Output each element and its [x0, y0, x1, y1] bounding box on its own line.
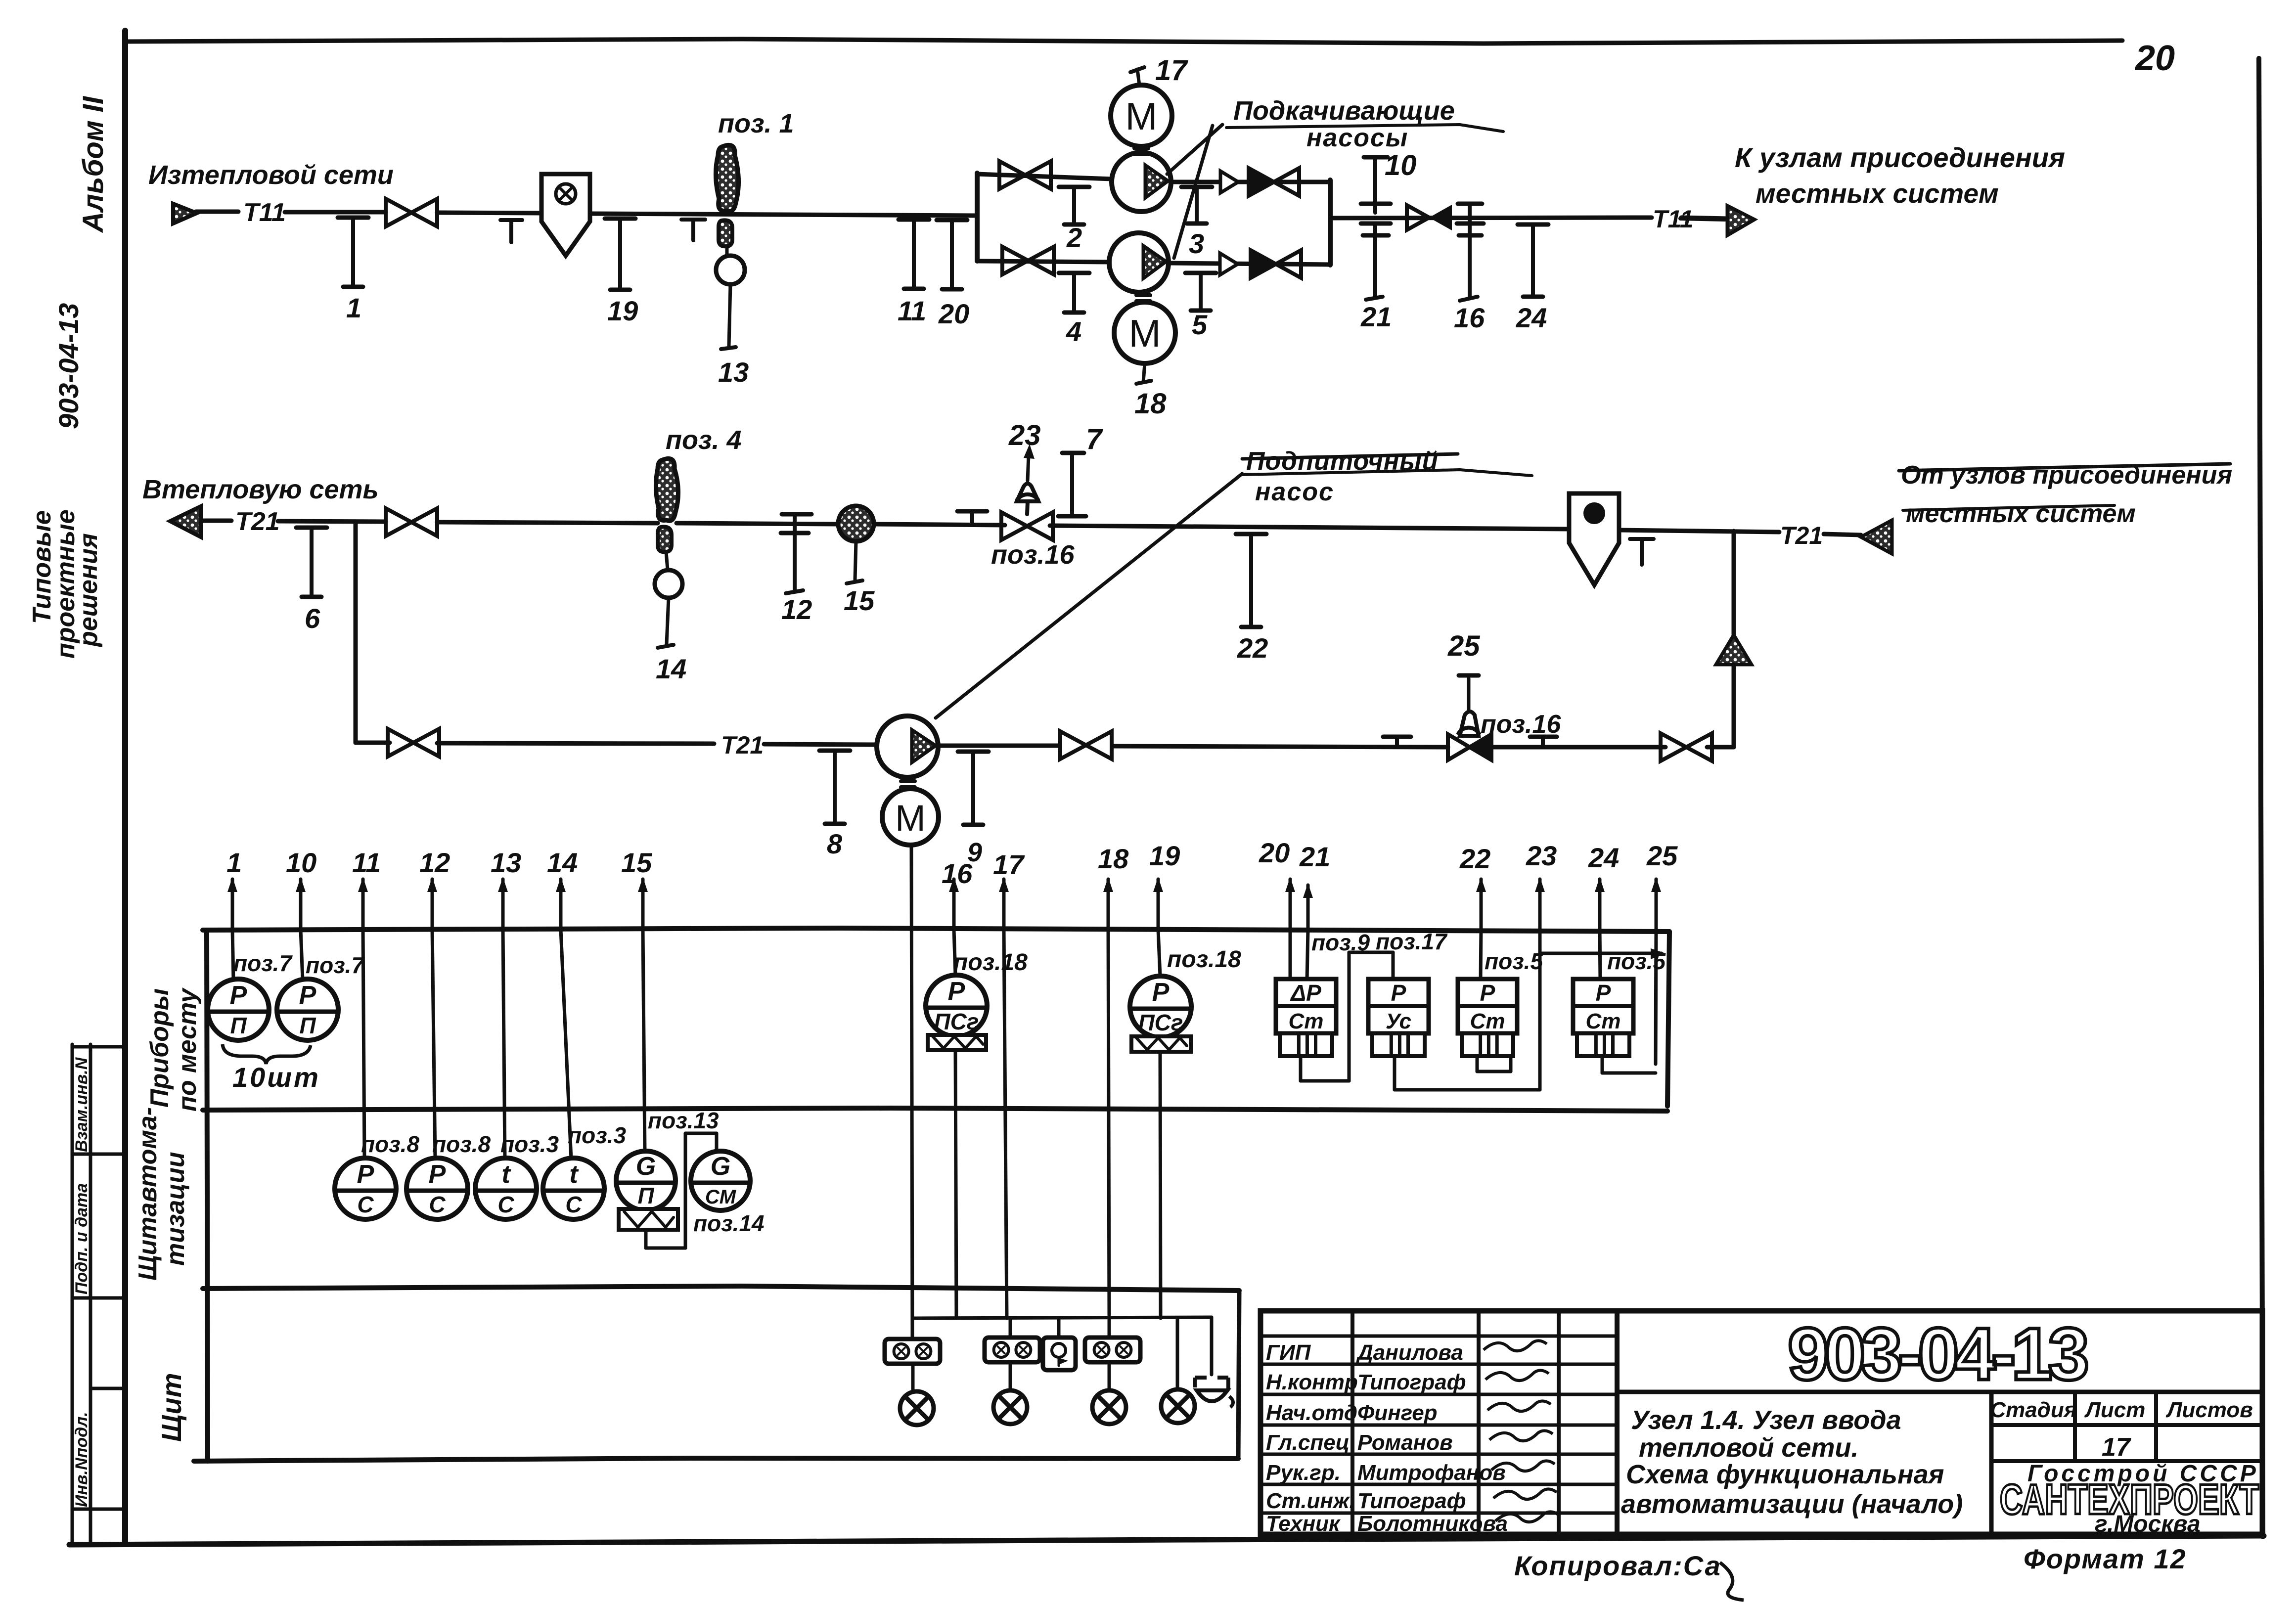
thermometer pos.4 on T21 [656, 458, 678, 521]
svg-text:Р: Р [1152, 978, 1170, 1007]
signal line 22 into P/St no.1 [1481, 930, 1481, 980]
pipe T11 to local systems [1330, 218, 1652, 218]
svg-text:10: 10 [286, 847, 316, 878]
tap 21 below line [1361, 222, 1391, 226]
signal lamp A [900, 1391, 934, 1425]
booster pump 2 [1109, 233, 1169, 292]
U-loop under P/St no.1 [1476, 1056, 1479, 1071]
drop to lamp box B [1009, 1318, 1012, 1338]
svg-text:М: М [1125, 94, 1158, 138]
tap 19 [605, 219, 638, 326]
signal line 15 down to G/P [643, 930, 645, 1152]
svg-text:ПСг: ПСг [934, 1009, 979, 1034]
lower branch pipe to pump 2 [977, 261, 1108, 262]
wire from P/PSg no.2 down to bus [1160, 1052, 1161, 1318]
margin stamp separator 3 [72, 1296, 125, 1300]
wire from P/PSg no.1 down to bus [955, 1050, 956, 1318]
svg-text:24: 24 [1516, 302, 1547, 333]
svg-text:Р: Р [1391, 980, 1406, 1006]
temperature recorder t/S pos.3 no.2 [543, 1158, 604, 1219]
title block outer box [1261, 1311, 2262, 1534]
row boundary line 2 (bottom of local instruments band) [203, 1108, 1667, 1111]
svg-text:ПСг: ПСг [1138, 1010, 1183, 1035]
svg-text:Взам.инв.N: Взам.инв.N [72, 1057, 91, 1152]
signal lamp D [1161, 1389, 1195, 1423]
junction vertical down to make-up line [1732, 531, 1736, 747]
svg-text:Инв.Nподл.: Инв.Nподл. [72, 1412, 91, 1507]
margin stamp separator 2 [72, 1153, 125, 1156]
make-up pipe T21 lower [356, 741, 390, 745]
signal line 24 [1588, 842, 1619, 930]
wire P/Us output down and right [1393, 1056, 1396, 1090]
svg-text:поз.18: поз.18 [1167, 946, 1241, 973]
electric motor M make-up [882, 789, 939, 845]
svg-text:Схема функциональная: Схема функциональная [1626, 1460, 1944, 1489]
title block signature row lines [1261, 1335, 1617, 1338]
svg-text:25: 25 [1646, 840, 1678, 871]
svg-text:поз.8: поз.8 [432, 1131, 491, 1157]
mud filter (gryazevik) on T11 [541, 174, 590, 256]
pump discharge header vertical [1328, 180, 1333, 265]
signal line 18 down to bus [1108, 930, 1109, 1318]
signal stub 18 from motor M2 [1143, 363, 1145, 382]
svg-text:Р: Р [230, 981, 247, 1010]
booster pump 1 [1112, 152, 1171, 212]
tap 8 [819, 751, 850, 859]
svg-text:Ст: Ст [1470, 1009, 1505, 1033]
svg-text:по месту: по месту [173, 987, 202, 1112]
signal line 13 down to t/S no.1 [503, 930, 505, 1159]
signal drop line 10 to gauge P/P no.2 [301, 930, 303, 980]
tee mark before control valve [957, 509, 987, 514]
svg-text:насосы: насосы [1306, 124, 1408, 152]
control valve pos.16 on make-up line [1448, 734, 1470, 760]
thermometer pos.1 on T11 [716, 145, 738, 211]
svg-text:Формат 12: Формат 12 [2024, 1543, 2187, 1574]
svg-text:11: 11 [898, 295, 926, 326]
svg-text:4: 4 [1066, 316, 1081, 347]
flow orifice device 15 on T21 [838, 506, 874, 541]
pressure gauge P/P pos.7 no.2 [277, 979, 338, 1040]
svg-text:С: С [429, 1192, 446, 1217]
stage/sheet header lines [1991, 1423, 2262, 1427]
check valve pump1 discharge [1249, 168, 1299, 196]
arrow inlet from heat network T11 [173, 204, 197, 223]
tap 10 above line [1364, 155, 1388, 160]
svg-text:Ус: Ус [1386, 1009, 1411, 1033]
svg-text:Н.контр: Н.контр [1266, 1370, 1358, 1394]
svg-text:поз.3: поз.3 [500, 1131, 559, 1157]
upper branch pipe to pump 1 [977, 174, 1112, 179]
svg-text:Подп. и дата: Подп. и дата [72, 1183, 91, 1294]
svg-text:20: 20 [938, 298, 969, 329]
svg-text:12: 12 [419, 847, 450, 878]
svg-text:21: 21 [1299, 841, 1330, 872]
title text cell [1989, 1392, 1994, 1534]
leader line to pump 1 [1167, 125, 1222, 174]
svg-text:Втепловую сеть: Втепловую сеть [142, 475, 379, 504]
pressure recorder P/S pos.8 no.2 [406, 1158, 468, 1219]
contact box under G/P [619, 1209, 678, 1230]
svg-text:Ст: Ст [1586, 1009, 1621, 1033]
signal drop line 1 to gauge P/P no.1 [232, 930, 233, 980]
pipe T11 supply main line [196, 210, 238, 214]
gate valve make-up left [388, 729, 439, 757]
svg-text:Данилова: Данилова [1355, 1340, 1463, 1365]
signal line 23 down to wire [1538, 930, 1542, 1090]
signal line 19 [1149, 840, 1180, 930]
check valve pump2 discharge [1251, 250, 1301, 278]
svg-text:Типограф: Типограф [1357, 1489, 1466, 1513]
tap 22 [1236, 534, 1268, 664]
drain tee mark after tap 19 [681, 218, 705, 222]
svg-text:Митрофанов: Митрофанов [1357, 1461, 1506, 1485]
svg-text:поз. 1: поз. 1 [718, 109, 794, 138]
pressure gauge 13 assembly below line [719, 220, 732, 246]
signal line 16 down to P/PSg no.1 [954, 930, 955, 975]
svg-text:5: 5 [1192, 309, 1208, 340]
drop to lamp D [1176, 1318, 1179, 1390]
svg-text:М: М [1129, 312, 1161, 355]
gate valve on T21 [386, 508, 437, 536]
svg-text:Листов: Листов [2165, 1398, 2253, 1422]
check valve (up) on junction vertical [1716, 635, 1752, 665]
flow indicator G/P pos.13 [616, 1151, 675, 1210]
svg-text:Р: Р [299, 981, 316, 1010]
svg-text:тизации: тизации [161, 1152, 190, 1266]
svg-text:19: 19 [1149, 840, 1180, 871]
svg-text:Т11: Т11 [243, 198, 286, 227]
svg-text:П: П [299, 1013, 316, 1038]
svg-text:насос: насос [1255, 478, 1334, 506]
nozzle cone pump2 discharge [1220, 253, 1238, 275]
drawing frame right border [2259, 58, 2263, 1537]
svg-text:13: 13 [491, 847, 521, 878]
tap 12 (double bar) [782, 512, 811, 517]
svg-text:t: t [569, 1160, 579, 1189]
svg-text:поз.7: поз.7 [306, 952, 365, 978]
tap 4 [1059, 273, 1089, 347]
arrow to heat network T21 [170, 506, 201, 537]
lamp unit B [985, 1338, 1040, 1362]
svg-text:Романов: Романов [1357, 1430, 1453, 1455]
svg-text:поз. 4: поз. 4 [666, 425, 742, 455]
svg-text:СМ: СМ [705, 1186, 737, 1208]
svg-text:Узел 1.4. Узел ввода: Узел 1.4. Узел ввода [1631, 1405, 1901, 1435]
electric motor M2 [1114, 302, 1175, 363]
svg-text:поз.5: поз.5 [1485, 948, 1543, 974]
link wire G/P box to G/SM [644, 1230, 648, 1248]
svg-text:17: 17 [993, 849, 1025, 880]
signal line 16 [942, 858, 973, 930]
signal line 12 [419, 847, 450, 930]
svg-text:решения: решения [74, 533, 103, 648]
svg-text:Р: Р [1596, 980, 1611, 1006]
signal stub 17 from motor M1 [1137, 69, 1139, 85]
pump 2 discharge pipe [1169, 263, 1330, 265]
gate valve lower branch [1002, 247, 1054, 274]
row boundary line 4 (bottom of Shchit band) [194, 1458, 1238, 1461]
svg-text:1: 1 [226, 847, 242, 878]
svg-text:Р: Р [1480, 980, 1495, 1006]
signal line 21 into dP/St [1307, 930, 1308, 980]
lamp unit C [1085, 1338, 1140, 1362]
svg-text:поз.14: поз.14 [693, 1210, 765, 1236]
arrow to local systems [1727, 206, 1755, 235]
svg-text:15: 15 [621, 847, 652, 878]
pressure gauge 14 assembly below T21 [658, 527, 672, 552]
contact box under P/PSg no.2 [1131, 1036, 1191, 1052]
leader line from callout to make-up pump [936, 474, 1242, 718]
svg-text:16: 16 [1454, 302, 1485, 333]
margin stamp separator 5 [72, 1508, 125, 1511]
lamp bus wire [912, 1317, 1212, 1318]
svg-text:Альбом II: Альбом II [77, 95, 109, 233]
wire from make-up motor M down to lamp group A [911, 845, 912, 1338]
svg-text:Изтепловой сети: Изтепловой сети [148, 160, 394, 190]
svg-text:Ст.инж.: Ст.инж. [1266, 1489, 1355, 1513]
drawing frame left border [122, 31, 128, 1543]
gate valve make-up mid [1060, 731, 1112, 759]
pressure relay P/St pos.5 no.2 [1573, 979, 1633, 1056]
tap 20 [937, 220, 969, 329]
signal arrow up from control valve [1028, 455, 1029, 481]
svg-text:ГИП: ГИП [1266, 1340, 1311, 1365]
bell unit [1043, 1338, 1076, 1370]
drop to bell [1057, 1318, 1061, 1338]
nozzle cone pump1 discharge [1220, 171, 1238, 193]
signal line 21 [1299, 841, 1330, 930]
svg-text:С: С [497, 1192, 514, 1217]
svg-text:тепловой сети.: тепловой сети. [1639, 1433, 1859, 1463]
tee mark after control valve 2 [1530, 735, 1557, 739]
coupling make-up pump to motor [901, 779, 915, 783]
tee mark before control valve 2 [1383, 735, 1411, 739]
electrocontact gauge P/PSg pos.18 no.2 [1130, 976, 1191, 1037]
svg-text:местных систем: местных систем [1756, 178, 1999, 209]
row band right trunk vertical [1667, 932, 1669, 1106]
svg-text:поз.3: поз.3 [568, 1122, 626, 1148]
gate valve on T11 inlet [386, 199, 437, 226]
svg-text:7: 7 [1086, 423, 1103, 455]
svg-text:14: 14 [547, 847, 578, 878]
pressure gauge P/P pos.7 no.1 [208, 979, 269, 1040]
pump suction header vertical [975, 173, 980, 261]
control valve body pos.16 [1001, 512, 1053, 540]
pressure relay P/Us pos.17 [1368, 979, 1429, 1056]
svg-text:10: 10 [1385, 149, 1417, 181]
svg-text:22: 22 [1459, 843, 1490, 874]
svg-text:Щит: Щит [156, 1373, 187, 1442]
svg-text:Техник: Техник [1266, 1512, 1341, 1536]
signal line 13 [491, 847, 521, 930]
pressure recorder P/S pos.8 no.1 [335, 1158, 396, 1219]
signal line 15 [621, 847, 652, 930]
drop to lamp box C [1108, 1318, 1111, 1338]
svg-text:15: 15 [844, 585, 875, 616]
tap 6 [296, 528, 327, 634]
signal line 17 [993, 849, 1025, 930]
svg-text:Т21: Т21 [721, 731, 764, 759]
tap 5 [1185, 273, 1216, 340]
signal line 24 into P/St no.2 [1600, 930, 1600, 980]
signal line 14 [547, 847, 578, 930]
control valve 2 actuator [1460, 712, 1479, 736]
svg-text:Подкачивающие: Подкачивающие [1233, 96, 1455, 126]
svg-text:Р: Р [429, 1160, 446, 1189]
margin stamp strip outer column [71, 1044, 74, 1544]
signal line 12 down to P/S no.2 [432, 930, 435, 1159]
signal lamp B [993, 1390, 1027, 1424]
svg-text:С: С [565, 1192, 582, 1217]
drawing frame top border [125, 39, 2122, 44]
svg-text:22: 22 [1237, 632, 1268, 664]
contact box under P/PSg no.1 [928, 1035, 986, 1050]
svg-text:Приборы: Приборы [145, 988, 174, 1108]
tap 11 [898, 220, 929, 326]
differential pressure relay dP/St pos.9 [1276, 979, 1336, 1056]
signal line 14 down to t/S no.2 [561, 930, 571, 1159]
mud filter on T21 (filled dot) [1569, 493, 1619, 585]
signal line 11 [352, 847, 381, 930]
electrocontact gauge P/PSg pos.18 no.1 [926, 975, 987, 1036]
title block signature column lines [1351, 1311, 1354, 1534]
stub lamp A [911, 1364, 915, 1391]
stub lamp C [1108, 1362, 1111, 1390]
flow totalizer G/SM pos.14 [691, 1151, 750, 1210]
panel band right vertical [1238, 1291, 1239, 1459]
svg-text:Ст: Ст [1289, 1009, 1324, 1033]
tap 9 [958, 752, 989, 825]
svg-text:13: 13 [718, 357, 749, 388]
svg-text:Лист: Лист [2084, 1398, 2146, 1422]
svg-text:ΔР: ΔР [1290, 980, 1321, 1006]
svg-text:поз.16: поз.16 [991, 540, 1075, 570]
svg-text:Типограф: Типограф [1357, 1370, 1466, 1394]
svg-text:20: 20 [2134, 39, 2175, 78]
wire up from line 23 to band edge with arrow [1540, 952, 1662, 955]
row boundary line 3 (bottom of panel instruments band) [203, 1286, 1239, 1291]
tap 24 [1516, 224, 1548, 333]
svg-text:Копировал:Са: Копировал:Са [1514, 1550, 1721, 1581]
svg-text:Т21: Т21 [1780, 522, 1823, 549]
pressure relay P/St pos.5 no.1 [1458, 979, 1517, 1056]
svg-text:Фингер: Фингер [1357, 1401, 1438, 1425]
svg-text:Стадия: Стадия [1990, 1398, 2076, 1422]
svg-text:П: П [637, 1183, 654, 1208]
temperature recorder t/S pos.3 no.1 [475, 1158, 537, 1219]
U-loop under P/St no.2 joining line 25 [1601, 1056, 1604, 1073]
tap 1 (pressure take-off) [338, 218, 368, 323]
svg-text:автоматизации (начало): автоматизации (начало) [1621, 1489, 1963, 1519]
svg-text:903-04-13: 903-04-13 [53, 303, 84, 429]
signal line 19 down to P/PSg no.2 [1158, 930, 1160, 976]
margin stamp separator 1 [72, 1045, 125, 1049]
svg-text:П: П [230, 1013, 247, 1038]
signal line 22 [1459, 843, 1490, 930]
svg-text:поз.7: поз.7 [233, 950, 293, 976]
svg-text:поз.17: поз.17 [1376, 929, 1448, 954]
drain tee mark before filter [500, 218, 522, 222]
margin stamp separator 4 (inner) [90, 1387, 125, 1390]
coupling pump1-motor1 [1134, 146, 1148, 150]
wire dP/St output to P/Us input [1299, 1056, 1303, 1081]
svg-text:Рук.гр.: Рук.гр. [1266, 1461, 1341, 1485]
electric motor M1 [1111, 85, 1172, 146]
tee mark after mud filter [1630, 537, 1654, 541]
signal line 18 [1098, 843, 1129, 930]
lamp unit A [885, 1339, 940, 1364]
svg-text:поз.13: поз.13 [648, 1108, 719, 1133]
svg-text:903-04-13: 903-04-13 [1788, 1312, 2089, 1395]
svg-text:21: 21 [1360, 301, 1392, 332]
rows left vertical [207, 930, 208, 1461]
signal line 23 [1526, 840, 1557, 930]
coupling pump2-motor2 [1136, 293, 1150, 297]
svg-text:25: 25 [1447, 630, 1480, 662]
svg-text:18: 18 [1134, 388, 1167, 420]
signal line 20 into dP/St [1289, 930, 1292, 980]
svg-text:Нач.отд: Нач.отд [1266, 1401, 1357, 1425]
signal line 20 [1259, 837, 1295, 930]
tap 3 [1181, 187, 1212, 259]
svg-text:14: 14 [656, 653, 686, 684]
signal line 1 [226, 847, 242, 930]
svg-text:Р: Р [948, 977, 965, 1006]
leader line to pump 2 [1174, 126, 1213, 258]
svg-text:20: 20 [1259, 837, 1290, 868]
signal lamp C [1092, 1390, 1126, 1424]
svg-text:поз.18: поз.18 [953, 949, 1028, 976]
svg-text:G: G [636, 1152, 656, 1181]
tap 7 (standpipe) [1062, 451, 1084, 455]
tap 16 on T11 outlet [1458, 202, 1482, 206]
document number cell [1617, 1390, 2262, 1394]
svg-text:2: 2 [1066, 222, 1082, 253]
svg-text:t: t [501, 1160, 511, 1189]
svg-text:12: 12 [781, 594, 812, 625]
svg-text:поз.16: поз.16 [1481, 710, 1561, 739]
pump 1 discharge pipe [1171, 180, 1330, 184]
check valve on T11 outlet [1407, 205, 1429, 230]
signal line 10 [286, 847, 316, 930]
svg-text:Щитавтома-: Щитавтома- [134, 1107, 162, 1281]
svg-text:Гл.спец: Гл.спец [1266, 1430, 1350, 1455]
drawing frame bottom border [69, 1536, 2264, 1545]
svg-text:6: 6 [305, 603, 320, 634]
svg-text:11: 11 [352, 847, 381, 878]
svg-text:8: 8 [827, 828, 843, 859]
svg-text:23: 23 [1526, 840, 1557, 871]
row boundary line 1 (top of local instruments band) [203, 928, 1669, 932]
signal line 25 [1646, 840, 1678, 930]
stub lamp B [1009, 1362, 1012, 1390]
svg-text:18: 18 [1098, 843, 1129, 874]
svg-text:10шт: 10шт [232, 1062, 320, 1093]
svg-text:поз.8: поз.8 [361, 1131, 419, 1157]
svg-text:местных систем: местных систем [1906, 499, 2136, 528]
svg-text:24: 24 [1588, 842, 1619, 873]
signal line 25 down inside band [1656, 930, 1656, 1064]
pipe T21 return main line [200, 519, 231, 523]
drop to horn [1210, 1317, 1214, 1375]
branch junction vertical to make-up line [354, 522, 358, 743]
svg-text:Р: Р [357, 1160, 374, 1189]
svg-text:г.Москва: г.Москва [2095, 1511, 2201, 1537]
svg-text:9: 9 [967, 838, 982, 867]
svg-text:19: 19 [607, 295, 638, 326]
svg-text:17: 17 [1155, 54, 1188, 87]
